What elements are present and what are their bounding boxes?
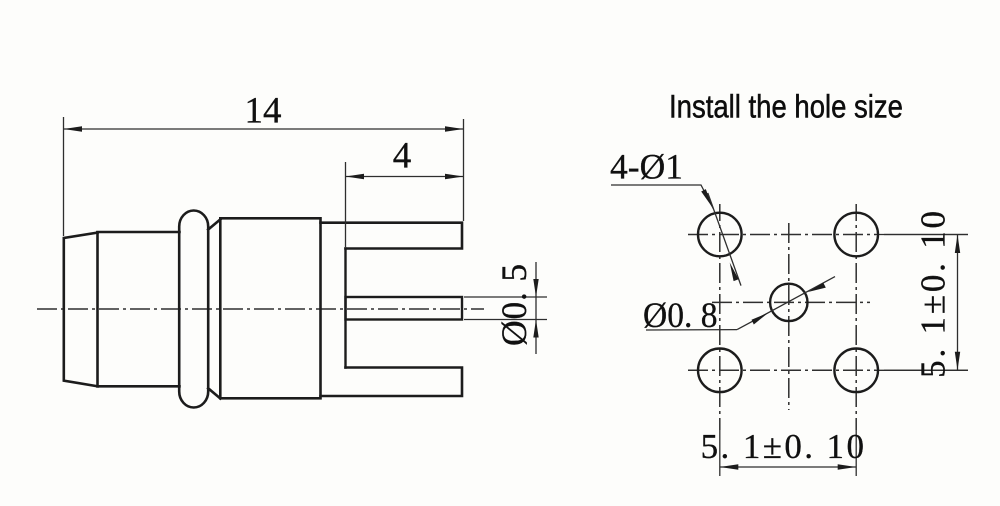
svg-text:4-Ø1: 4-Ø1	[610, 147, 683, 187]
svg-text:5. 1±0. 10: 5. 1±0. 10	[701, 427, 867, 466]
svg-text:Install the hole size: Install the hole size	[669, 90, 903, 125]
svg-text:Ø0. 5: Ø0. 5	[494, 263, 534, 346]
svg-text:5. 1±0. 10: 5. 1±0. 10	[914, 208, 953, 378]
svg-text:4: 4	[393, 136, 412, 177]
svg-text:14: 14	[245, 91, 282, 132]
